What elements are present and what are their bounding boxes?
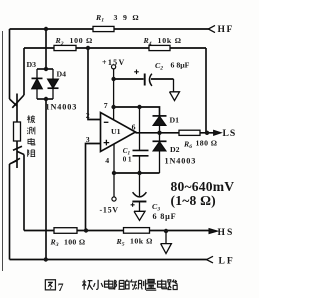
- diode D4: [48, 69, 59, 99]
- label 被测电阻 (resistor under test), hand-drawn glyphs: [27, 115, 35, 157]
- svg-text:1N4003: 1N4003: [46, 103, 78, 112]
- wire DUT top lead: [16, 94, 18, 123]
- terminal HS arrow: [209, 229, 218, 234]
- capacitor C3 lead: [139, 173, 141, 196]
- resistor R1 body: [93, 26, 114, 31]
- capacitor C1 plates: [133, 150, 149, 155]
- capacitor C3 curved plate: [133, 192, 147, 197]
- page edge rule: [2, 31, 4, 271]
- wire LF horizontal rail: [10, 259, 207, 261]
- wire pin7 supply vertical: [113, 69, 115, 120]
- svg-text:D1: D1: [170, 115, 180, 124]
- resistor Rx (被测电阻, resistor under test) body: [14, 122, 21, 141]
- svg-text:10k Ω: 10k Ω: [130, 237, 153, 246]
- wire DUT bottom lead: [16, 141, 18, 168]
- svg-text:D4: D4: [57, 70, 67, 79]
- wire contact slash lower-left: [12, 158, 20, 162]
- wire op-amp pin2 input: [88, 48, 101, 120]
- svg-text:LF: LF: [219, 255, 235, 266]
- svg-text:6: 6: [132, 123, 136, 132]
- caption char 的: [126, 280, 136, 290]
- svg-text:D2: D2: [170, 145, 180, 154]
- caption char 图: [45, 280, 55, 290]
- svg-text:6 8μF: 6 8μF: [171, 60, 190, 69]
- svg-text:LS: LS: [223, 128, 237, 139]
- svg-text:4: 4: [105, 156, 109, 165]
- wire D3/D4 top bar: [37, 68, 53, 70]
- caption char 电: [158, 280, 167, 289]
- wire R2-R4 horizontal rail: [24, 47, 206, 49]
- svg-text:R3: R3: [50, 238, 59, 249]
- svg-text:10k Ω: 10k Ω: [158, 36, 182, 45]
- svg-text:1N4003: 1N4003: [165, 157, 197, 166]
- caption char 阻: [115, 280, 125, 290]
- resistor R2 body: [54, 45, 76, 50]
- wire inner sense vertical lower: [23, 155, 25, 231]
- svg-text:HS: HS: [218, 227, 235, 238]
- wire contact diagonal lower-right: [17, 152, 24, 155]
- capacitor C1 vertical leads: [139, 107, 141, 173]
- svg-text:D3: D3: [27, 60, 37, 69]
- minus sign in op-amp: [104, 121, 109, 123]
- svg-text:C2: C2: [155, 61, 163, 72]
- terminal +15V circle: [112, 65, 116, 69]
- caption char 极: [82, 280, 92, 290]
- svg-text:3: 3: [86, 135, 90, 144]
- svg-text:R5: R5: [116, 237, 125, 248]
- svg-text:7: 7: [104, 101, 108, 110]
- caption char 测: [135, 280, 145, 290]
- op-amp U1 triangle: [101, 113, 136, 152]
- svg-text:7: 7: [58, 281, 64, 294]
- svg-text:HF: HF: [218, 24, 235, 35]
- svg-text:C3: C3: [152, 202, 160, 213]
- caption 图7 极小电阻的测量电路: [45, 280, 177, 291]
- ground on HS rail: [161, 231, 172, 254]
- wire -rail horizontal: [114, 172, 160, 174]
- terminal LF arrowhead: [207, 256, 214, 263]
- wire node branch vertical x46 upper: [45, 29, 47, 69]
- svg-text:0 1: 0 1: [123, 156, 132, 164]
- ground under C2: [170, 79, 180, 101]
- caption char 小: [93, 280, 102, 290]
- terminal HF arrowhead: [208, 25, 215, 32]
- plus sign at C3: [131, 203, 135, 207]
- plus sign at C2: [134, 70, 139, 75]
- caption char 电: [105, 280, 114, 289]
- svg-text:2: 2: [86, 111, 90, 120]
- svg-text:U1: U1: [111, 127, 121, 136]
- resistor R3 body: [54, 228, 77, 234]
- capacitor C2 wiring: [114, 78, 174, 80]
- wire +rail to D1: [114, 107, 160, 116]
- terminal -15V circle: [112, 197, 116, 201]
- svg-text:R6: R6: [183, 139, 192, 150]
- resistor R6 body: [179, 130, 200, 135]
- wire pin4 supply vertical: [113, 144, 115, 197]
- svg-text:100 Ω: 100 Ω: [64, 237, 85, 246]
- wire left outer vertical upper: [9, 29, 11, 99]
- resistor R4 body: [149, 45, 170, 50]
- wire feedback vertical from R4 rail: [205, 48, 207, 133]
- wire left outer vertical lower: [9, 164, 11, 260]
- wire contact diagonal lower-left: [10, 161, 18, 165]
- svg-text:3 9 Ω: 3 9 Ω: [114, 13, 141, 22]
- diode D2: [153, 133, 167, 173]
- wire contact diagonal upper-left: [10, 99, 17, 106]
- ground under C3: [134, 202, 145, 221]
- wire op-amp pin3 input: [86, 144, 101, 231]
- wire branch vertical x46 lower: [45, 99, 47, 260]
- svg-text:180 Ω: 180 Ω: [196, 139, 218, 148]
- svg-text:R4: R4: [143, 36, 152, 47]
- capacitor C3 straight plate: [132, 201, 146, 203]
- wire HS horizontal rail: [24, 230, 209, 232]
- wire top horizontal (to HF): [10, 28, 209, 30]
- wire D3/D4 bottom bar: [37, 98, 53, 100]
- svg-text:80~640mV: 80~640mV: [171, 179, 235, 194]
- plus sign in op-amp: [104, 140, 110, 146]
- diode D3: [32, 69, 43, 99]
- svg-text:100 Ω: 100 Ω: [70, 36, 93, 45]
- wire contact slash lower-right: [13, 146, 22, 150]
- wire op-amp output: [136, 132, 208, 134]
- capacitor C2 plates: [144, 74, 146, 86]
- caption char 路: [167, 280, 177, 290]
- svg-text:R1: R1: [95, 13, 104, 24]
- svg-text:+15V: +15V: [102, 58, 126, 67]
- resistor R5 body: [124, 228, 150, 234]
- svg-text:(1~8 Ω): (1~8 Ω): [171, 193, 216, 209]
- diode D1: [153, 116, 167, 133]
- svg-text:6 8μF: 6 8μF: [153, 212, 177, 221]
- wire contact diagonal upper-right crossing: [12, 95, 24, 108]
- wire inner sense vertical upper: [23, 48, 25, 95]
- caption char 量: [146, 280, 156, 291]
- terminal LS arrow: [214, 130, 222, 135]
- svg-text:-15V: -15V: [100, 206, 119, 215]
